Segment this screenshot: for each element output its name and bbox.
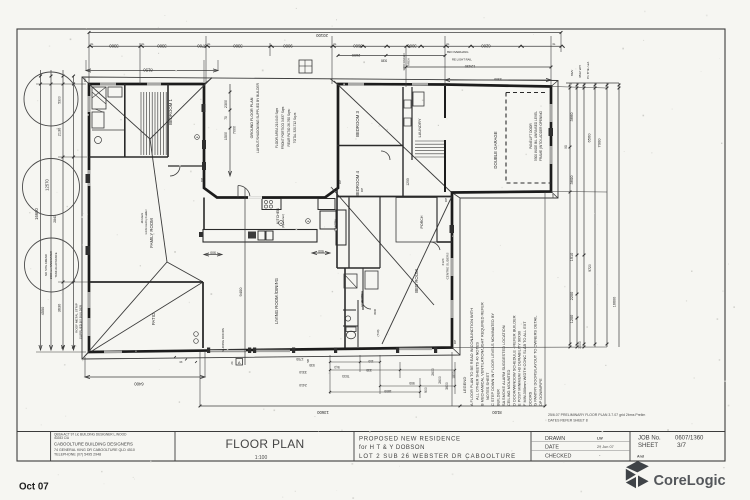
svg-text:20100: 20100 <box>316 33 328 38</box>
svg-text:GROUND FLOOR PLAN: GROUND FLOOR PLAN <box>250 97 254 138</box>
svg-text:REAR PATIO 26.760 Sqm: REAR PATIO 26.760 Sqm <box>287 109 291 146</box>
svg-text:4550: 4550 <box>41 307 45 315</box>
svg-text:NO SITE AMEND: NO SITE AMEND <box>44 254 48 276</box>
svg-text:PORCH: PORCH <box>420 215 424 228</box>
svg-text:DP: DP <box>551 194 555 198</box>
svg-text:5700: 5700 <box>197 44 207 49</box>
svg-text:2600: 2600 <box>431 368 435 376</box>
svg-text:DP: DP <box>360 188 364 192</box>
svg-text:900: 900 <box>424 387 428 393</box>
svg-text:ALL OTHER SHEETS 40 NOTES: ALL OTHER SHEETS 40 NOTES <box>474 342 479 400</box>
svg-text:1500: 1500 <box>224 132 228 140</box>
svg-text:3300: 3300 <box>109 44 119 49</box>
svg-text:16600: 16600 <box>34 208 39 220</box>
svg-text:(730): (730) <box>376 329 380 336</box>
svg-text:3/7: 3/7 <box>677 442 686 449</box>
svg-text:FAMILY ROOM: FAMILY ROOM <box>149 218 154 248</box>
svg-text:3600: 3600 <box>569 175 574 185</box>
svg-text:CHECKED: CHECKED <box>545 454 571 460</box>
svg-text:3000: 3000 <box>407 44 417 49</box>
svg-text:DATES REFER SHEET 8: DATES REFER SHEET 8 <box>548 419 588 423</box>
svg-text:DOUBLE GARAGE: DOUBLE GARAGE <box>493 131 498 168</box>
svg-text:BUILDER: BUILDER <box>496 389 501 406</box>
svg-text:A: A <box>238 360 241 365</box>
svg-text:2124: 2124 <box>441 258 445 265</box>
svg-text:3000: 3000 <box>578 341 582 349</box>
svg-text:9720: 9720 <box>588 264 592 272</box>
svg-text:1200: 1200 <box>570 315 574 323</box>
svg-text:FRAME (INTO LADDER OPENING: FRAME (INTO LADDER OPENING <box>539 110 543 161</box>
svg-text:0607/1360: 0607/1360 <box>675 436 704 442</box>
svg-text:12570: 12570 <box>45 179 50 191</box>
svg-text:A FLOOR PLAN TO BE READ IN CON: A FLOOR PLAN TO BE READ IN CONJUNCTION W… <box>469 308 474 406</box>
svg-text:JOB No.: JOB No. <box>638 436 661 442</box>
svg-text:1800: 1800 <box>452 371 456 379</box>
svg-text:3600: 3600 <box>445 382 449 390</box>
svg-text:13600: 13600 <box>317 410 329 415</box>
svg-text:BEDROOM 3: BEDROOM 3 <box>355 111 360 137</box>
svg-text:6200: 6200 <box>481 44 491 49</box>
svg-text:8150: 8150 <box>143 68 153 73</box>
svg-text:NOTES SHEET: NOTES SHEET <box>485 372 490 400</box>
svg-text:16600: 16600 <box>613 297 617 308</box>
svg-text:2300: 2300 <box>224 100 228 108</box>
svg-text:3660: 3660 <box>569 112 574 122</box>
svg-text:Oct 07: Oct 07 <box>19 482 49 493</box>
svg-text:2600: 2600 <box>438 376 442 384</box>
svg-text:G PANTRY DOORS/LAYOUT TO OWNER: G PANTRY DOORS/LAYOUT TO OWNERS DETAIL <box>533 315 538 406</box>
svg-text:70: 70 <box>224 116 228 120</box>
svg-text:TOTAL 320.712 Sq.m: TOTAL 320.712 Sq.m <box>293 112 297 143</box>
svg-text:(by owner): (by owner) <box>281 214 285 228</box>
svg-text:9000: 9000 <box>283 44 293 49</box>
svg-text:CABOOLTURE BUILDING DESIGNERS: CABOOLTURE BUILDING DESIGNERS <box>54 442 133 447</box>
svg-text:SUPPLIED BY BUILDER: SUPPLIED BY BUILDER <box>79 304 83 339</box>
svg-text:1200: 1200 <box>406 178 410 186</box>
svg-text:330: 330 <box>366 368 372 372</box>
svg-text:DP: DP <box>338 180 342 184</box>
svg-text:CoreLogic: CoreLogic <box>654 473 726 489</box>
svg-text:110: 110 <box>368 359 373 363</box>
svg-text:3300: 3300 <box>233 44 243 49</box>
svg-text:TELEPHONE (07) 5495 2948: TELEPHONE (07) 5495 2948 <box>54 453 101 457</box>
svg-text:900: 900 <box>210 251 216 255</box>
svg-text:F MIN.300mm WIDTH CONC SLAB TO: F MIN.300mm WIDTH CONC SLAB TO ALL EXT <box>522 321 527 406</box>
svg-text:CEILING MOUNTED: CEILING MOUNTED <box>506 369 511 406</box>
svg-text:LEGEND: LEGEND <box>462 377 467 394</box>
svg-text:5300 WIDE B/L UNRAISED LEVEL: 5300 WIDE B/L UNRAISED LEVEL <box>534 111 538 161</box>
svg-text:SB: SB <box>306 359 310 363</box>
svg-text:2300mm RAINWATER: 2300mm RAINWATER <box>49 251 53 279</box>
svg-text:7000: 7000 <box>233 126 237 134</box>
svg-text:2130: 2130 <box>58 128 62 136</box>
svg-text:2840: 2840 <box>53 215 57 223</box>
svg-text:DOORS: DOORS <box>527 391 532 406</box>
svg-text:530: 530 <box>309 363 315 367</box>
svg-text:WIR: WIR <box>373 308 377 315</box>
svg-text:8100: 8100 <box>492 410 502 415</box>
svg-text:90: 90 <box>564 145 568 149</box>
svg-text:DATE: DATE <box>545 445 559 451</box>
svg-text:7000: 7000 <box>597 138 602 148</box>
svg-text:86/V: 86/V <box>570 69 574 76</box>
svg-text:for H T & Y DOBSON: for H T & Y DOBSON <box>359 445 425 451</box>
svg-text:TANK ALLOWANCE: TANK ALLOWANCE <box>54 252 58 277</box>
svg-text:3310: 3310 <box>299 370 307 374</box>
svg-text:RE LIGHT RAIL: RE LIGHT RAIL <box>452 58 472 62</box>
svg-text:5300: 5300 <box>58 96 62 104</box>
svg-text:LAYOUT/SHADOWING SUPPLIED BY B: LAYOUT/SHADOWING SUPPLIED BY BUILDER <box>256 82 260 153</box>
svg-text:1800: 1800 <box>384 389 392 393</box>
svg-text:930: 930 <box>381 59 387 63</box>
svg-text:LAUNDRY: LAUNDRY <box>417 118 422 137</box>
svg-text:6560: 6560 <box>587 133 592 143</box>
svg-text:PATIO: PATIO <box>151 312 156 325</box>
svg-text:LW: LW <box>597 437 603 441</box>
svg-text:12430: 12430 <box>465 64 476 68</box>
svg-text:BEDROOM 1: BEDROOM 1 <box>168 99 173 125</box>
svg-text:DP: DP <box>200 178 204 182</box>
svg-text:PANELIFT DOOR: PANELIFT DOOR <box>529 123 533 149</box>
svg-text:890 OVERHANG: 890 OVERHANG <box>447 50 468 54</box>
svg-text:DP: DP <box>444 198 448 202</box>
svg-text:D DOOR/WINDOW SCHEDULE - REFER: D DOOR/WINDOW SCHEDULE - REFER BUILDER <box>511 315 516 406</box>
svg-text:LOT 2 SUB 26 WEBSTER DR CABOOL: LOT 2 SUB 26 WEBSTER DR CABOOLTURE <box>359 454 516 460</box>
svg-text:6400: 6400 <box>134 382 144 387</box>
svg-text:DP: DP <box>453 340 457 344</box>
svg-text:BED ROOM: BED ROOM <box>414 269 419 293</box>
svg-text:74 GENERAL KING DR CABOOLTURE: 74 GENERAL KING DR CABOOLTURE QLD 4510 <box>54 448 135 452</box>
svg-text:1:100: 1:100 <box>255 455 268 461</box>
svg-text:DP: DP <box>83 78 87 82</box>
svg-text:7033: 7033 <box>342 374 350 378</box>
svg-text:P1 THE /-aA: P1 THE /-aA <box>586 61 590 79</box>
svg-text:FLOOR AREA 219.043 Sqm: FLOOR AREA 219.043 Sqm <box>275 108 279 148</box>
svg-text:3812 WH: 3812 WH <box>578 65 582 78</box>
svg-text:LIVING ROOM /DINING: LIVING ROOM /DINING <box>274 277 279 324</box>
svg-text:900: 900 <box>318 249 324 253</box>
svg-text:E POST MINIMUM H3 DURABILITY 9: E POST MINIMUM H3 DURABILITY 90X90 <box>517 330 522 406</box>
svg-text:DRAWN: DRAWN <box>545 436 565 442</box>
svg-text:40283 C/A: 40283 C/A <box>54 436 70 440</box>
svg-text:900: 900 <box>409 381 415 385</box>
svg-text:3300: 3300 <box>157 44 167 49</box>
svg-text:': ' <box>724 467 725 473</box>
svg-text:And: And <box>637 455 644 459</box>
svg-text:SA SMOKE ALARM SUGGESTED LOCA: SA SMOKE ALARM SUGGESTED LOCATION <box>501 325 506 406</box>
svg-text:9400: 9400 <box>238 287 243 297</box>
svg-text:DP DOWNPIPE: DP DOWNPIPE <box>538 378 543 406</box>
svg-text:1910: 1910 <box>570 253 574 261</box>
svg-text:3630: 3630 <box>58 304 62 312</box>
svg-text:SLIDING DOORS: SLIDING DOORS <box>221 328 225 352</box>
svg-text:C STEP DOWN IN FLOOR LEVELS NO: C STEP DOWN IN FLOOR LEVELS NOMINATED BY <box>490 313 495 406</box>
svg-text:25/6.07 PRELIMINARY FLOOR PLAN: 25/6.07 PRELIMINARY FLOOR PLAN 3.7.07 gr… <box>548 413 645 417</box>
svg-text:FRONT PORTICO 3.837 Sqm: FRONT PORTICO 3.837 Sqm <box>281 106 285 149</box>
svg-text:B MECHANICAL VENTILATION/LIGHT: B MECHANICAL VENTILATION/LIGHT REQUIRED … <box>480 302 485 406</box>
svg-text:PROPOSED NEW RESIDENCE: PROPOSED NEW RESIDENCE <box>359 437 461 443</box>
svg-text:2600: 2600 <box>352 53 360 57</box>
svg-text:26: 26 <box>230 361 234 365</box>
svg-text:CENTRE SLIDERS: CENTRE SLIDERS <box>446 253 450 280</box>
svg-text:AREA: AREA <box>407 58 411 66</box>
svg-text:ENSUITE: ENSUITE <box>360 293 364 306</box>
svg-text:2410: 2410 <box>299 383 307 387</box>
svg-text:SHEET: SHEET <box>638 443 658 449</box>
svg-text:5300: 5300 <box>494 77 502 81</box>
svg-text:1750: 1750 <box>296 357 304 361</box>
svg-text:reinforced by builder: reinforced by builder <box>144 209 148 234</box>
svg-text:2200: 2200 <box>570 292 574 300</box>
